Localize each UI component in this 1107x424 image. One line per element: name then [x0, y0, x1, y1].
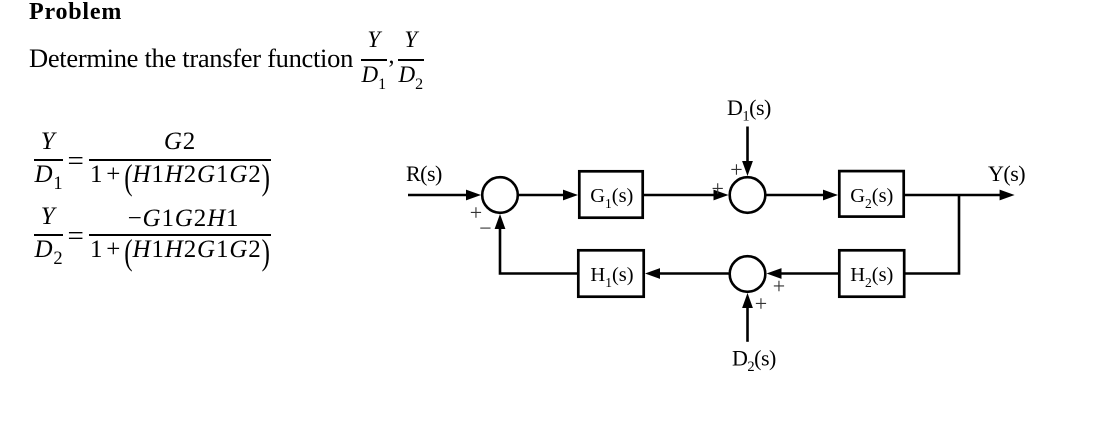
- svg-text:Y(s): Y(s): [988, 161, 1025, 186]
- svg-text:D1(s): D1(s): [727, 95, 771, 125]
- svg-text:+: +: [773, 274, 785, 299]
- svg-text:R(s): R(s): [406, 161, 442, 186]
- svg-text:+: +: [730, 157, 742, 182]
- svg-text:−: −: [479, 215, 491, 240]
- svg-text:+: +: [755, 291, 767, 316]
- svg-text:+: +: [711, 176, 723, 201]
- svg-text:D2(s): D2(s): [732, 346, 776, 376]
